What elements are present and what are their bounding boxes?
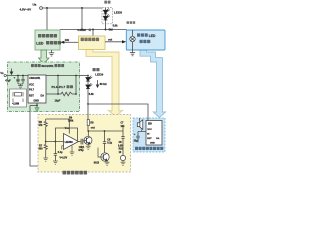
LED D-a of LED9 — [86, 76, 92, 81]
svg-text:0.3K66: 0.3K66 — [78, 28, 87, 32]
wire MCU to LED group2 — [80, 75, 89, 77]
resistor R5 — [44, 119, 47, 142]
svg-text:10μF: 10μF — [55, 99, 61, 102]
node junction feedback — [55, 141, 57, 143]
wire feedback loop — [55, 128, 77, 142]
wire P1 bus upper — [46, 75, 80, 77]
capacitor C8 zobel — [121, 126, 124, 156]
crystal Y1 sub box — [10, 89, 27, 107]
svg-text:RST: RST — [29, 95, 34, 98]
op-amp U2 LM386 — [62, 134, 79, 153]
block arrow sampler to MCU — [39, 50, 50, 64]
svg-text:R10: R10 — [119, 149, 124, 151]
svg-text:LED9: LED9 — [95, 73, 103, 77]
wire to voice box — [88, 104, 148, 118]
LED D-b of LED9 — [86, 83, 92, 88]
svg-text:C89C2051: C89C2051 — [29, 78, 41, 80]
wire LED9 string — [87, 76, 89, 105]
ground Q1 — [86, 144, 91, 149]
lamp symbol in indicator box — [130, 30, 135, 50]
resistor R10 circle element — [120, 155, 125, 160]
svg-text:0.1μ: 0.1μ — [58, 152, 63, 154]
node junction amp rail left — [87, 130, 89, 132]
thick blue signal bus from indicator box to voice box — [140, 50, 166, 118]
node junction group2 top — [87, 75, 89, 77]
svg-text:Ua: Ua — [33, 3, 37, 7]
current arrow group2 — [96, 80, 98, 87]
node junction mid rail C — [105, 29, 107, 31]
node junction mid rail A — [81, 29, 83, 31]
block 驱动电路 yellow driver box — [79, 36, 106, 50]
wire drop to sampler box — [46, 8, 48, 30]
LED D-b of LED8 — [104, 15, 110, 20]
svg-text:ISD: ISD — [148, 123, 152, 125]
capacitor C7 in voice box — [136, 132, 139, 143]
svg-text:89C2051: 89C2051 — [41, 64, 54, 68]
svg-text:LED8: LED8 — [114, 11, 122, 15]
node junction mid rail B — [92, 29, 94, 31]
ground R7 — [43, 158, 48, 161]
label 红组 group label — [104, 1, 110, 4]
ground for caps — [18, 84, 23, 89]
wire minus input — [46, 141, 64, 143]
svg-text:47μF: 47μF — [5, 80, 11, 83]
svg-text:DA: DA — [156, 137, 160, 140]
IC U1 89C2051 body — [28, 75, 46, 103]
svg-text:LM386: LM386 — [65, 140, 74, 144]
transistor Q2 — [101, 153, 109, 161]
small green arrow into audio box — [35, 106, 39, 113]
node Vs input terminal — [0, 71, 6, 77]
wire down to amp stage — [87, 104, 89, 131]
node junction long drop — [36, 105, 38, 107]
svg-text:560: 560 — [39, 148, 44, 151]
wire vertical x58 — [57, 76, 59, 95]
svg-text:RST: RST — [147, 138, 152, 140]
node junction P1 bus b — [75, 75, 77, 77]
block 残疾人LED指示灯 blue indicator box — [126, 30, 165, 50]
wire MCU bottom out — [30, 105, 38, 107]
resistor R7 — [44, 142, 47, 159]
wire mid rail — [60, 29, 127, 31]
arrow into indicator box — [122, 40, 126, 43]
wire drop into driver box — [92, 30, 94, 37]
wire driver to sampler with arrow — [64, 41, 79, 43]
capacitor C2 ceramic — [21, 76, 24, 85]
capacitor C2 on feedback leg — [54, 142, 57, 162]
wire LED8 to mid rail — [105, 24, 107, 30]
label 语音提示电路 bottom — [63, 171, 88, 175]
speaker symbol — [137, 118, 143, 129]
svg-text:5.8k: 5.8k — [113, 24, 118, 27]
wire Vcc feed inside MCU — [6, 75, 28, 77]
LED D-a of LED8 — [104, 9, 110, 14]
transistor Q1 — [84, 131, 92, 144]
wire top supply rail — [42, 7, 101, 9]
thick yellow signal bus from driver box to audio box — [86, 50, 123, 117]
svg-text:VCC: VCC — [29, 83, 34, 86]
LED group LED8 dashed enclosure — [102, 8, 112, 24]
capacitor C5 output coupling — [81, 139, 83, 145]
ground C2 leg — [53, 161, 58, 164]
ground op-amp — [70, 152, 75, 155]
svg-text:86 kΩ: 86 kΩ — [100, 83, 107, 86]
wire input top jog — [46, 119, 70, 134]
svg-text:4.5V~6V: 4.5V~6V — [20, 8, 32, 12]
svg-text:9013: 9013 — [94, 161, 100, 164]
wire drop to mid rail — [81, 8, 83, 30]
node junction amp rail right — [104, 130, 106, 132]
node junction cap2 — [22, 75, 24, 77]
svg-text:4.19M: 4.19M — [12, 103, 19, 106]
node junction lower b — [75, 93, 77, 95]
wire driver out to indicator — [105, 41, 123, 43]
wire op-amp output — [79, 141, 81, 143]
svg-text:LED: LED — [36, 41, 44, 45]
IC U3 voice chip — [146, 121, 162, 146]
capacitor 47uF electrolytic — [16, 76, 19, 85]
wire amp rail — [88, 130, 123, 132]
svg-text:VCC: VCC — [147, 129, 152, 131]
block 信号取样器 green sampler box — [35, 30, 61, 50]
resistor R8 on out leg — [87, 120, 94, 126]
svg-text:5.8k: 5.8k — [89, 93, 94, 96]
label 三组 — [93, 68, 100, 71]
svg-text:10μ: 10μ — [134, 141, 139, 143]
svg-text:P1.0~P1.7: P1.0~P1.7 — [52, 85, 66, 89]
svg-text:V=2.5V: V=2.5V — [60, 158, 68, 160]
svg-text:GND: GND — [150, 143, 155, 145]
capacitor C6 — [103, 131, 106, 153]
svg-text:0.05: 0.05 — [118, 145, 123, 147]
node Ua supply terminal — [20, 3, 43, 12]
wire LED8 string — [105, 8, 107, 24]
block 语音放大电路 big yellow audio box — [38, 115, 131, 173]
svg-text:10k: 10k — [65, 38, 70, 42]
label 5V高 on mid rail — [127, 21, 136, 24]
node junction P1 bus a — [57, 75, 59, 77]
node junction out — [87, 103, 89, 105]
node junction on top rail right — [81, 7, 83, 9]
wire cap to IC — [138, 131, 142, 133]
label 录放电路 bottom of voice box — [135, 147, 163, 150]
resistor R4 on lower wire — [46, 92, 76, 96]
node junction minus input — [45, 141, 47, 143]
svg-text:5k6: 5k6 — [109, 28, 114, 31]
svg-text:out: out — [91, 126, 95, 129]
svg-text:47k: 47k — [38, 124, 43, 127]
svg-text:470μ: 470μ — [78, 149, 84, 152]
node junction lower a — [57, 93, 59, 95]
wire C5 to Q1 base — [83, 140, 85, 143]
svg-text:0.1μ: 0.1μ — [107, 142, 112, 145]
ground Q2 — [105, 161, 110, 165]
ground below sampler box — [49, 50, 55, 56]
label MCU header 单片机89C2051控制器 — [31, 64, 64, 68]
svg-text:GND: GND — [34, 100, 40, 103]
svg-text:Vs: Vs — [0, 71, 4, 75]
wire long drop to audio box — [30, 106, 73, 167]
ground below indicator box — [130, 50, 135, 56]
wire Q2 base — [98, 148, 101, 158]
block 语音录放 blue voice box — [133, 118, 165, 152]
wire speaker to IC — [142, 130, 147, 132]
svg-text:P3.7: P3.7 — [29, 89, 35, 92]
svg-text:LED: LED — [149, 34, 156, 38]
svg-text:out: out — [108, 38, 112, 42]
wire into voice IC top — [147, 118, 149, 121]
svg-text:DA: DA — [41, 95, 45, 98]
ground zobel — [121, 161, 126, 166]
small arrow mark near input — [10, 69, 13, 75]
wire IC GND pin stub — [36, 103, 38, 106]
node junction on top rail — [46, 7, 48, 9]
svg-text:100k: 100k — [68, 120, 74, 123]
node junction cap1 — [17, 75, 19, 77]
block MCU 89C2051 dashed green box — [8, 62, 80, 112]
wire vertical x76 — [75, 76, 77, 95]
